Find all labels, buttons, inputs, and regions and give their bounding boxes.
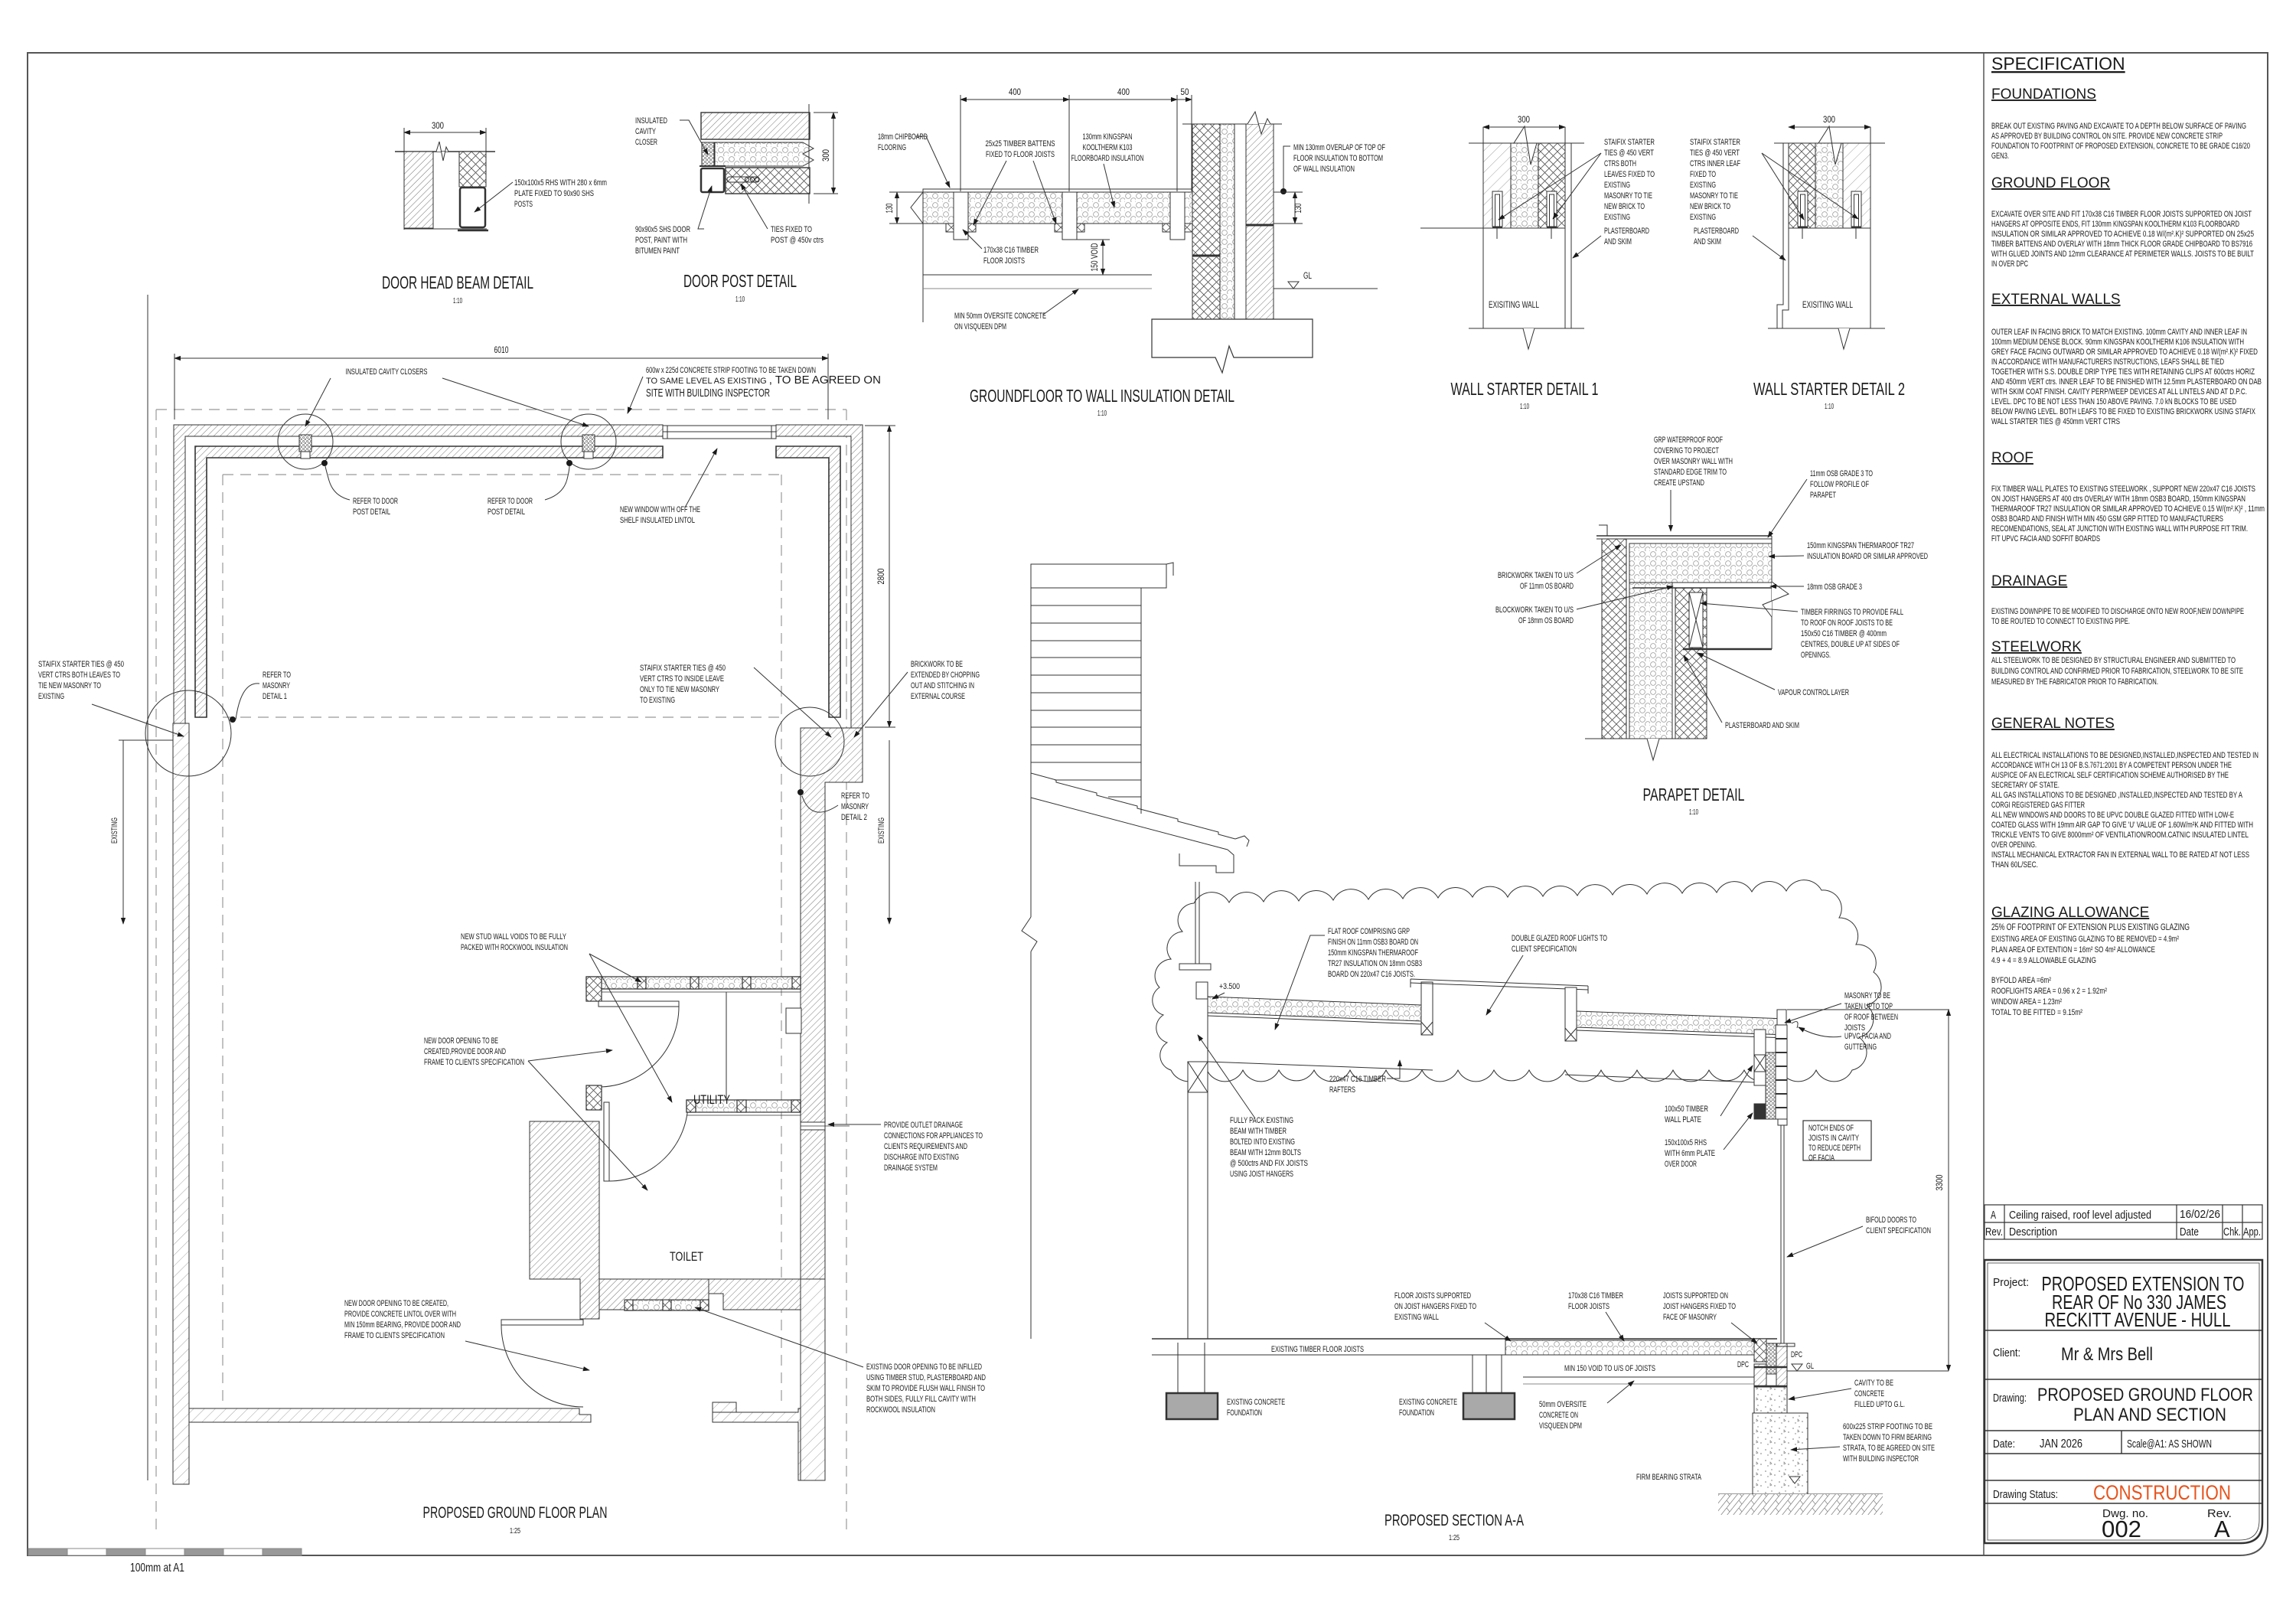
svg-text:JOIST HANGERS FIXED TO: JOIST HANGERS FIXED TO — [1663, 1302, 1736, 1311]
svg-text:BEAM WITH 12mm BOLTS: BEAM WITH 12mm BOLTS — [1230, 1148, 1301, 1157]
left pier — [1177, 1343, 1179, 1393]
svg-text:TR27 INSULATION ON 18mm OSB3: TR27 INSULATION ON 18mm OSB3 — [1328, 959, 1422, 968]
svg-text:PROVIDE OUTLET DRAINAGE: PROVIDE OUTLET DRAINAGE — [884, 1121, 963, 1130]
svg-text:CLIENT SPECIFICATION: CLIENT SPECIFICATION — [1866, 1226, 1931, 1235]
ceiling lines — [1208, 1062, 1433, 1070]
svg-text:EXISTING TIMBER FLOOR JOISTS: EXISTING TIMBER FLOOR JOISTS — [1271, 1345, 1364, 1354]
osb line — [1629, 582, 1772, 583]
corner detail circle 1 — [145, 690, 231, 776]
svg-text:App.: App. — [2243, 1225, 2261, 1239]
svg-text:TIES @ 450 VERT: TIES @ 450 VERT — [1604, 148, 1654, 158]
svg-text:SKIM TO PROVIDE FLUSH WALL FIN: SKIM TO PROVIDE FLUSH WALL FINISH TO — [866, 1384, 985, 1393]
label 150x100x5 RHS — [514, 178, 607, 209]
svg-text:CENTRES, DOUBLE UP AT SIDES OF: CENTRES, DOUBLE UP AT SIDES OF — [1801, 640, 1900, 649]
svg-text:150mm KINGSPAN THERMAROOF TR27: 150mm KINGSPAN THERMAROOF TR27 — [1807, 541, 1914, 550]
svg-text:BEAM WITH TIMBER: BEAM WITH TIMBER — [1230, 1127, 1287, 1136]
svg-text:OUTER LEAF IN FACING BRICK TO: OUTER LEAF IN FACING BRICK TO MATCH EXIS… — [1991, 328, 2247, 337]
svg-text:PROPOSED GROUND FLOOR: PROPOSED GROUND FLOOR — [2037, 1385, 2253, 1405]
svg-text:CONNECTIONS FOR APPLIANCES TO: CONNECTIONS FOR APPLIANCES TO — [884, 1131, 983, 1141]
svg-text:DOOR POST DETAIL: DOOR POST DETAIL — [683, 271, 797, 291]
svg-text:18mm OSB GRADE 3: 18mm OSB GRADE 3 — [1807, 583, 1862, 592]
svg-text:NEW STUD WALL VOIDS TO BE FULL: NEW STUD WALL VOIDS TO BE FULLY — [461, 932, 566, 942]
left upstand of roof at existing wall — [1196, 982, 1208, 999]
toilet bottom stud wall — [625, 1300, 709, 1310]
svg-text:FRAME TO CLIENTS SPECIFICATION: FRAME TO CLIENTS SPECIFICATION — [424, 1058, 524, 1067]
svg-text:USING JOIST HANGERS: USING JOIST HANGERS — [1230, 1170, 1293, 1179]
svg-text:Client:: Client: — [1993, 1346, 2020, 1359]
svg-text:300: 300 — [432, 120, 444, 131]
labels — [878, 132, 928, 152]
svg-text:3300: 3300 — [1934, 1174, 1945, 1190]
right edge + break — [1771, 536, 1773, 649]
svg-text:FLOOR JOISTS: FLOOR JOISTS — [983, 256, 1025, 266]
svg-text:STANDARD EDGE TRIM TO: STANDARD EDGE TRIM TO — [1654, 468, 1727, 477]
svg-text:FIXED TO: FIXED TO — [1690, 170, 1716, 179]
svg-text:GREY FACE FACING OUTWARD OR SI: GREY FACE FACING OUTWARD OR SIMILAR APPR… — [1991, 348, 2258, 357]
svg-text:ALL NEW WINDOWS AND DOORS TO B: ALL NEW WINDOWS AND DOORS TO BE UPVC DOU… — [1991, 811, 2234, 820]
svg-text:EXISTING WALL: EXISTING WALL — [1394, 1313, 1439, 1322]
svg-text:Drawing:: Drawing: — [1993, 1392, 2027, 1405]
SHS door post square — [701, 168, 724, 192]
svg-text:PLASTERBOARD: PLASTERBOARD — [1604, 227, 1649, 236]
masonry detail 2 circle — [775, 707, 844, 776]
svg-text:DETAIL 2: DETAIL 2 — [841, 813, 867, 822]
svg-text:90x90x5 SHS DOOR: 90x90x5 SHS DOOR — [635, 225, 690, 234]
existing left wall — [173, 723, 189, 1484]
svg-text:BOTH SIDES, FULLY FILL CAVITY: BOTH SIDES, FULLY FILL CAVITY WITH — [866, 1395, 976, 1404]
svg-text:ONLY TO TIE NEW MASONRY: ONLY TO TIE NEW MASONRY — [640, 685, 719, 694]
svg-text:WITH BUILDING INSPECTOR: WITH BUILDING INSPECTOR — [1843, 1454, 1919, 1464]
label ties fixed to post — [771, 225, 823, 245]
svg-text:INSULATED: INSULATED — [635, 116, 667, 126]
dim 150 void — [1077, 240, 1110, 275]
svg-text:MASONRY TO TIE: MASONRY TO TIE — [1690, 191, 1738, 201]
svg-text:TIE NEW MASONRY TO: TIE NEW MASONRY TO — [38, 681, 101, 690]
dim 130 left — [889, 192, 923, 224]
svg-text:FACE OF MASONRY: FACE OF MASONRY — [1663, 1313, 1717, 1322]
svg-text:WALL STARTER DETAIL 2: WALL STARTER DETAIL 2 — [1753, 379, 1905, 399]
svg-text:VERT CTRS BOTH LEAVES TO: VERT CTRS BOTH LEAVES TO — [38, 671, 120, 680]
svg-text:OVER MASONRY WALL WITH: OVER MASONRY WALL WITH — [1654, 457, 1733, 466]
blockwork band lower — [726, 168, 810, 194]
svg-text:1:25: 1:25 — [1449, 1534, 1459, 1542]
svg-text:MASONRY TO TIE: MASONRY TO TIE — [1604, 191, 1652, 201]
svg-text:JAN 2026: JAN 2026 — [2040, 1438, 2082, 1451]
svg-text:GROUNDFLOOR TO WALL INSULATION: GROUNDFLOOR TO WALL INSULATION DETAIL — [970, 386, 1234, 406]
foundation — [1152, 319, 1313, 373]
svg-text:FIT UPVC FACIA AND SOFFIT BOAR: FIT UPVC FACIA AND SOFFIT BOARDS — [1991, 534, 2100, 543]
RHS over door — [1754, 1104, 1766, 1119]
svg-text:50mm OVERSITE: 50mm OVERSITE — [1539, 1400, 1587, 1409]
block leaf cross hatch — [459, 152, 486, 187]
wall right — [1152, 112, 1378, 373]
svg-text:STEELWORK: STEELWORK — [1991, 639, 2082, 655]
door glass — [1780, 1125, 1782, 1497]
plasterboard — [1564, 127, 1566, 328]
svg-text:A: A — [1991, 1209, 1996, 1222]
new wall leaves — [1789, 143, 1815, 228]
svg-text:100mm at A1: 100mm at A1 — [130, 1562, 184, 1575]
wall course lines — [1031, 605, 1141, 606]
inner blockwork — [1675, 588, 1707, 739]
svg-text:EXISTING: EXISTING — [1604, 213, 1630, 222]
svg-text:DETAIL 1: DETAIL 1 — [263, 692, 287, 701]
svg-text:OF WALL INSULATION: OF WALL INSULATION — [1293, 165, 1355, 174]
svg-text:STRATA, TO BE AGREED ON SITE: STRATA, TO BE AGREED ON SITE — [1843, 1444, 1935, 1453]
masonry pier between room and toilet — [530, 1121, 599, 1319]
svg-text:COVERING TO PROJECT: COVERING TO PROJECT — [1654, 446, 1719, 455]
GL line — [1274, 288, 1378, 289]
svg-text:ROCKWOOL INSULATION: ROCKWOOL INSULATION — [866, 1405, 935, 1415]
svg-text:AND SKIM: AND SKIM — [1694, 237, 1721, 246]
svg-text:FLOORBOARD INSULATION: FLOORBOARD INSULATION — [1071, 154, 1144, 163]
svg-text:100mm MEDIUM DENSE BLOCK. 90mm: 100mm MEDIUM DENSE BLOCK. 90mm KINGSPAN … — [1991, 338, 2244, 347]
svg-text:EXISTING: EXISTING — [1690, 213, 1716, 222]
GL line — [1787, 1370, 1949, 1372]
svg-text:PROPOSED GROUND FLOOR PLAN: PROPOSED GROUND FLOOR PLAN — [423, 1504, 608, 1522]
svg-text:USING TIMBER STUD, PLASTERBOAR: USING TIMBER STUD, PLASTERBOARD AND — [866, 1373, 986, 1382]
svg-text:GL: GL — [1303, 270, 1312, 281]
label 90x90x5 SHS door post — [635, 225, 690, 256]
svg-text:PROPOSED SECTION A-A: PROPOSED SECTION A-A — [1384, 1512, 1524, 1529]
svg-text:UPVC FACIA AND: UPVC FACIA AND — [1844, 1032, 1891, 1041]
svg-text:IN ACCORDANCE WITH MANUFACTURE: IN ACCORDANCE WITH MANUFACTURERS INSTRUC… — [1991, 357, 2224, 367]
svg-text:REFER TO DOOR: REFER TO DOOR — [353, 497, 398, 506]
svg-text:STAIFIX STARTER TIES @ 450: STAIFIX STARTER TIES @ 450 — [640, 664, 726, 673]
svg-text:JOISTS IN CAVITY: JOISTS IN CAVITY — [1808, 1134, 1859, 1143]
svg-text:JOISTS SUPPORTED ON: JOISTS SUPPORTED ON — [1663, 1291, 1728, 1301]
svg-text:OUT AND STITCHING IN: OUT AND STITCHING IN — [911, 681, 974, 690]
svg-text:1:10: 1:10 — [735, 295, 745, 304]
svg-text:EXISITING WALL: EXISITING WALL — [1802, 299, 1853, 310]
svg-text:CLOSER: CLOSER — [635, 138, 657, 147]
svg-text:ON JOIST HANGERS AT 400 ctrs O: ON JOIST HANGERS AT 400 ctrs OVERLAY WIT… — [1991, 494, 2245, 504]
rooflight left upstand — [1421, 982, 1433, 1035]
eaves box — [1031, 564, 1166, 588]
svg-text:Scale@A1: AS SHOWN: Scale@A1: AS SHOWN — [2127, 1438, 2212, 1451]
plasterboard ceiling — [1683, 648, 1772, 651]
svg-text:CAVITY TO BE: CAVITY TO BE — [1854, 1379, 1893, 1388]
svg-text:EXISTING: EXISTING — [1604, 181, 1630, 190]
door post 2 — [582, 435, 595, 459]
svg-text:BYFOLD AREA =6m²: BYFOLD AREA =6m² — [1991, 976, 2051, 985]
top dim line 400/400/50 — [960, 99, 1069, 100]
svg-text:GENERAL NOTES: GENERAL NOTES — [1991, 716, 2115, 732]
svg-text:POST DETAIL: POST DETAIL — [353, 507, 390, 517]
6010 dim — [174, 354, 828, 419]
labels — [1654, 436, 1733, 488]
svg-text:OF ROOF BETWEEN: OF ROOF BETWEEN — [1844, 1013, 1898, 1022]
svg-text:FLOOR INSULATION TO BOTTOM: FLOOR INSULATION TO BOTTOM — [1293, 154, 1383, 163]
top of existing wall — [1420, 227, 1565, 229]
svg-text:GL: GL — [1806, 1362, 1814, 1371]
osb underline — [1208, 1016, 1421, 1024]
new wall outer leaf (top + left) — [174, 425, 863, 728]
brick band top — [701, 113, 810, 139]
svg-text:CORGI REGISTERED GAS FITTER: CORGI REGISTERED GAS FITTER — [1991, 801, 2085, 810]
svg-text:REFER TO: REFER TO — [263, 671, 291, 680]
existing house outer line — [147, 295, 148, 1480]
door head track — [1778, 1119, 1787, 1125]
bottom existing wall — [189, 1408, 591, 1422]
svg-text:PARAPET DETAIL: PARAPET DETAIL — [1643, 785, 1745, 804]
parapet detail — [1585, 525, 1789, 760]
svg-text:BLOCKWORK TAKEN TO U/S: BLOCKWORK TAKEN TO U/S — [1495, 605, 1574, 615]
svg-text:THAN 60L/SEC.: THAN 60L/SEC. — [1991, 860, 2038, 870]
wall starter detail 2 — [1768, 114, 1885, 349]
top brick upstand — [1777, 1010, 1786, 1025]
right existing wall of utility/toilet — [801, 728, 863, 1279]
top of existing wall — [1789, 227, 1870, 229]
svg-text:POST @ 450v ctrs: POST @ 450v ctrs — [771, 236, 823, 245]
svg-text:GLAZING ALLOWANCE: GLAZING ALLOWANCE — [1991, 905, 2149, 921]
revision cloud — [1153, 880, 1881, 1082]
new floor insulation — [1505, 1340, 1754, 1355]
svg-text:MIN 50mm OVERSITE CONCRETE: MIN 50mm OVERSITE CONCRETE — [954, 312, 1046, 321]
svg-text:TO REDUCE DEPTH: TO REDUCE DEPTH — [1808, 1144, 1861, 1153]
wall tie — [727, 177, 759, 182]
strip footing — [1753, 1413, 1808, 1494]
svg-text:150mm KINGSPAN THERMAROOF: 150mm KINGSPAN THERMAROOF — [1328, 948, 1418, 958]
svg-text:CLIENTS REQUIREMENTS AND: CLIENTS REQUIREMENTS AND — [884, 1142, 967, 1151]
stud block mid-left — [586, 1085, 602, 1110]
svg-text:Date:: Date: — [1993, 1438, 2015, 1451]
svg-text:BELOW PAVING LEVEL. BOTH LEAFS: BELOW PAVING LEVEL. BOTH LEAFS TO BE FIX… — [1991, 407, 2255, 416]
svg-text:INSULATED CAVITY CLOSERS: INSULATED CAVITY CLOSERS — [346, 367, 428, 377]
svg-text:EXISTING: EXISTING — [877, 818, 886, 844]
svg-text:POST DETAIL: POST DETAIL — [488, 507, 525, 517]
svg-text:+3.500: +3.500 — [1219, 982, 1240, 991]
svg-text:2800: 2800 — [876, 568, 886, 584]
detail circle post1 — [278, 414, 333, 469]
svg-text:130mm KINGSPAN: 130mm KINGSPAN — [1083, 132, 1133, 142]
glazing — [1411, 979, 1588, 986]
svg-text:ROOFLIGHTS AREA = 0.96 x 2 = 1: ROOFLIGHTS AREA = 0.96 x 2 = 1.92m² — [1991, 987, 2107, 996]
svg-text:WITH SKIM COAT FINISH. CAVITY: WITH SKIM COAT FINISH. CAVITY PERP/WEEP … — [1991, 387, 2247, 397]
svg-text:FOUNDATION: FOUNDATION — [1227, 1408, 1262, 1418]
joist 3 — [1170, 192, 1185, 240]
insulation band with hex — [715, 142, 814, 166]
svg-text:25x25 TIMBER BATTENS: 25x25 TIMBER BATTENS — [986, 139, 1055, 148]
starter ties — [1798, 191, 1808, 227]
wall below door — [1754, 1339, 1766, 1362]
svg-text:LEAVES FIXED TO: LEAVES FIXED TO — [1604, 170, 1655, 179]
svg-text:FOLLOW PROFILE OF: FOLLOW PROFILE OF — [1810, 480, 1869, 489]
right edge down — [1870, 127, 1871, 328]
svg-text:KOOLTHERM K103: KOOLTHERM K103 — [1083, 143, 1133, 152]
svg-text:400: 400 — [1117, 86, 1130, 97]
svg-text:CONCRETE ON: CONCRETE ON — [1539, 1411, 1578, 1420]
panel divider — [1983, 53, 1985, 1555]
svg-text:TIMBER FIRRINGS TO PROVIDE FAL: TIMBER FIRRINGS TO PROVIDE FALL — [1801, 608, 1903, 617]
svg-text:FOUNDATIONS: FOUNDATIONS — [1991, 86, 2096, 103]
svg-text:Drawing Status:: Drawing Status: — [1993, 1488, 2058, 1501]
svg-text:INSULATION OR SIMILAR APPROVED: INSULATION OR SIMILAR APPROVED TO ACHIEV… — [1991, 230, 2254, 239]
vertical line in utility — [726, 992, 727, 1100]
svg-text:ACCORDANCE WITH CH 13 OF B.S.7: ACCORDANCE WITH CH 13 OF B.S.7671:2001 B… — [1991, 761, 2232, 770]
bottom-right wall piece — [713, 1402, 825, 1480]
toilet door leaf + arc — [604, 1102, 688, 1181]
utility/toilet divider stud — [687, 1100, 801, 1115]
RHS beam — [460, 188, 485, 227]
notch in right wall — [786, 1008, 801, 1033]
svg-text:POST, PAINT WITH: POST, PAINT WITH — [635, 236, 687, 245]
svg-text:EXISTING CONCRETE: EXISTING CONCRETE — [1399, 1398, 1457, 1407]
svg-text:COATED GLASS WITH 19mm AIR GAP: COATED GLASS WITH 19mm AIR GAP TO GIVE '… — [1991, 821, 2253, 830]
drainage outlet gap — [801, 1122, 850, 1130]
toilet bottom wall hatched piece right of stud — [709, 1279, 801, 1310]
svg-text:OF 18mm OS BOARD: OF 18mm OS BOARD — [1518, 616, 1574, 625]
oversite concrete band — [923, 274, 1152, 276]
svg-text:NEW DOOR OPENING TO BE: NEW DOOR OPENING TO BE — [424, 1036, 498, 1046]
svg-text:OVER DOOR: OVER DOOR — [1665, 1160, 1697, 1169]
svg-text:DPC: DPC — [1737, 1360, 1749, 1369]
new wall leaves — [1483, 143, 1511, 228]
svg-text:EXISTING CONCRETE: EXISTING CONCRETE — [1227, 1398, 1285, 1407]
svg-text:ALL GAS INSTALLATIONS TO BE DE: ALL GAS INSTALLATIONS TO BE DESIGNED ,IN… — [1991, 791, 2243, 800]
svg-text:NOTCH ENDS OF: NOTCH ENDS OF — [1808, 1124, 1854, 1133]
svg-text:FIX TIMBER WALL PLATES TO EXIS: FIX TIMBER WALL PLATES TO EXISTING STEEL… — [1991, 485, 2255, 494]
svg-text:PLAN AREA OF EXTENTION = 16m²: PLAN AREA OF EXTENTION = 16m² SO 4m² ALL… — [1991, 945, 2155, 955]
timber firring — [1689, 592, 1703, 648]
svg-text:FIXED TO FLOOR JOISTS: FIXED TO FLOOR JOISTS — [986, 150, 1055, 159]
svg-text:TIES @ 450 VERT: TIES @ 450 VERT — [1690, 148, 1740, 158]
svg-text:PLAN AND SECTION: PLAN AND SECTION — [2073, 1405, 2226, 1425]
svg-text:FLOORING: FLOORING — [878, 143, 906, 152]
svg-text:FLOOR JOISTS: FLOOR JOISTS — [1568, 1302, 1609, 1311]
svg-text:MIN 150 VOID TO U/S OF JOISTS: MIN 150 VOID TO U/S OF JOISTS — [1564, 1364, 1655, 1373]
svg-text:LEVEL. DPC TO BE NOT LESS THAN: LEVEL. DPC TO BE NOT LESS THAN 150 ABOVE… — [1991, 397, 2236, 406]
svg-text:EXTERNAL COURSE: EXTERNAL COURSE — [911, 692, 965, 701]
svg-text:PROVIDE CONCRETE LINTOL OVER W: PROVIDE CONCRETE LINTOL OVER WITH — [344, 1310, 456, 1319]
revision table — [1985, 1205, 2262, 1239]
left beam x-box — [1188, 1062, 1208, 1092]
svg-text:170x38 C16 TIMBER: 170x38 C16 TIMBER — [1568, 1291, 1623, 1301]
svg-text:REFER TO DOOR: REFER TO DOOR — [488, 497, 533, 506]
svg-text:50: 50 — [1181, 86, 1189, 97]
plasterboard left with jog — [1777, 143, 1783, 328]
strata — [1718, 1493, 1883, 1495]
label insulated cavity closer — [635, 116, 667, 147]
svg-text:FOUNDATION TO FOOTPRINT OF PRO: FOUNDATION TO FOOTPRINT OF PROPOSED EXTE… — [1991, 142, 2250, 151]
break symbol — [436, 142, 448, 161]
left edge down — [1482, 127, 1484, 328]
svg-text:NEW BRICK TO: NEW BRICK TO — [1604, 202, 1645, 211]
utility door leaf + arc — [598, 1001, 679, 1087]
svg-text:UTILITY: UTILITY — [693, 1092, 730, 1107]
svg-text:DPC: DPC — [1791, 1350, 1802, 1359]
svg-text:CREATED,PROVIDE DOOR AND: CREATED,PROVIDE DOOR AND — [424, 1047, 506, 1056]
svg-text:RECOMENDATIONS, SEAL AT JUNCTI: RECOMENDATIONS, SEAL AT JUNCTION WITH EX… — [1991, 524, 2248, 534]
svg-text:SHELF INSULATED LINTOL: SHELF INSULATED LINTOL — [620, 516, 695, 525]
svg-text:NEW DOOR OPENING TO BE CREATED: NEW DOOR OPENING TO BE CREATED, — [344, 1299, 448, 1308]
svg-text:MIN 150mm BEARING, PROVIDE DOO: MIN 150mm BEARING, PROVIDE DOOR AND — [344, 1320, 461, 1330]
svg-text:HANGERS AT OPPOSITE ENDS, FIT: HANGERS AT OPPOSITE ENDS, FIT 130mm KING… — [1991, 220, 2239, 229]
svg-text:PARAPET: PARAPET — [1810, 491, 1836, 500]
joist 2 — [1062, 192, 1077, 240]
3300 dim — [1948, 1010, 1949, 1371]
svg-text:SECRETARY OF STATE.: SECRETARY OF STATE. — [1991, 781, 2060, 790]
svg-text:NEW BRICK TO: NEW BRICK TO — [1690, 202, 1730, 211]
dim 300 right — [814, 113, 838, 194]
wall plate x-box — [1754, 1030, 1766, 1055]
existing wall bottom — [1469, 328, 1584, 329]
svg-text:TOILET: TOILET — [670, 1249, 703, 1264]
svg-text:CTRS INNER LEAF: CTRS INNER LEAF — [1690, 159, 1740, 168]
outer leaf — [1602, 539, 1626, 739]
svg-text:BITUMEN PAINT: BITUMEN PAINT — [635, 246, 680, 256]
wall top line — [395, 151, 495, 152]
svg-text:BUILDING CONTROL AND CONFIRMED: BUILDING CONTROL AND CONFIRMED PRIOR TO … — [1991, 667, 2243, 676]
gutter curl — [1792, 1022, 1798, 1028]
flat roof — [1188, 979, 1786, 1339]
svg-text:EXISTING DOWNPIPE TO BE MODIFI: EXISTING DOWNPIPE TO BE MODIFIED TO DISC… — [1991, 607, 2244, 616]
insulated cavity closer block — [702, 142, 714, 166]
bottom break — [1585, 738, 1707, 739]
svg-text:MASONRY: MASONRY — [263, 681, 290, 690]
inner leaf top — [195, 446, 663, 717]
svg-text:GEN3.: GEN3. — [1991, 152, 2009, 161]
main wall vertical — [1030, 564, 1032, 917]
rooflight right upstand — [1565, 987, 1577, 1041]
floorboard insulation band — [923, 192, 1192, 224]
insulation strip in cavity — [1766, 1053, 1776, 1119]
existing house — [1022, 563, 1249, 1339]
svg-text:VERT CTRS TO INSIDE LEAVE: VERT CTRS TO INSIDE LEAVE — [640, 674, 724, 684]
svg-text:BIFOLD DOORS TO: BIFOLD DOORS TO — [1866, 1216, 1916, 1225]
svg-text:BRICKWORK TO BE: BRICKWORK TO BE — [911, 660, 963, 669]
door head beam detail — [395, 128, 495, 230]
right wall head assembly — [1754, 1010, 1949, 1504]
svg-text:BOARD ON 220x47 C16 JOISTS.: BOARD ON 220x47 C16 JOISTS. — [1328, 970, 1415, 979]
svg-text:CONCRETE: CONCRETE — [1854, 1389, 1884, 1398]
labels — [346, 367, 428, 377]
svg-text:11mm OSB GRADE 3 TO: 11mm OSB GRADE 3 TO — [1810, 469, 1873, 478]
svg-text:THERMAROOF TR27 INSULATION OR: THERMAROOF TR27 INSULATION OR SIMILAR AP… — [1991, 504, 2265, 514]
left edge vertical — [922, 189, 924, 322]
svg-text:EXCAVATE OVER SITE AND FIT 170: EXCAVATE OVER SITE AND FIT 170x38 C16 TI… — [1991, 210, 2252, 219]
wall band above toilet bottom stud — [599, 1279, 709, 1310]
svg-text:CLIENT SPECIFICATION: CLIENT SPECIFICATION — [1512, 945, 1577, 954]
svg-text:OF 11mm OS BOARD: OF 11mm OS BOARD — [1520, 582, 1574, 591]
svg-text:OSB3 BOARD AND FINISH WITH MIN: OSB3 BOARD AND FINISH WITH MIN 450 GSM G… — [1991, 514, 2223, 524]
bottom plate — [404, 228, 487, 230]
svg-text:MEASURED BY THE FABRICATOR PRI: MEASURED BY THE FABRICATOR PRIOR TO FABR… — [1991, 677, 2158, 687]
svg-text:150x50 C16 TIMBER @ 400mm: 150x50 C16 TIMBER @ 400mm — [1801, 629, 1887, 638]
starter ties — [1492, 191, 1502, 227]
vertical existing wall line — [808, 104, 810, 204]
svg-text:FILLED UPTO G.L.: FILLED UPTO G.L. — [1854, 1400, 1905, 1409]
svg-text:EXISTING AREA OF EXISTING GLAZ: EXISTING AREA OF EXISTING GLAZING TO BE … — [1991, 935, 2179, 944]
svg-text:WITH 6mm PLATE: WITH 6mm PLATE — [1665, 1149, 1715, 1158]
svg-text:AUSPICE OF AN ELECTRICAL SELF: AUSPICE OF AN ELECTRICAL SELF CERTIFICAT… — [1991, 771, 2229, 780]
svg-text:ALL ELECTRICAL INSTALLATIONS T: ALL ELECTRICAL INSTALLATIONS TO BE DESIG… — [1991, 751, 2258, 760]
dim 300 — [404, 132, 486, 133]
wall below stud block — [603, 1110, 605, 1181]
svg-text:FRAME TO CLIENTS SPECIFICATION: FRAME TO CLIENTS SPECIFICATION — [344, 1331, 445, 1340]
svg-text:FLOOR JOISTS SUPPORTED: FLOOR JOISTS SUPPORTED — [1394, 1291, 1471, 1301]
svg-text:130: 130 — [884, 203, 895, 213]
svg-text:STAIFIX STARTER: STAIFIX STARTER — [1604, 138, 1655, 147]
svg-text:EXTERNAL WALLS: EXTERNAL WALLS — [1991, 292, 2121, 308]
svg-text:1:10: 1:10 — [1689, 808, 1698, 817]
middle pier — [1472, 1355, 1473, 1393]
svg-text:SITE WITH BUILDING INSPECTOR: SITE WITH BUILDING INSPECTOR — [646, 387, 770, 400]
svg-text:AS APPROVED BY BUILDING CONTRO: AS APPROVED BY BUILDING CONTROL ON SITE.… — [1991, 132, 2223, 141]
chipboard floor — [923, 189, 1192, 192]
svg-text:130: 130 — [1293, 203, 1303, 213]
2800 dim right — [865, 426, 895, 727]
